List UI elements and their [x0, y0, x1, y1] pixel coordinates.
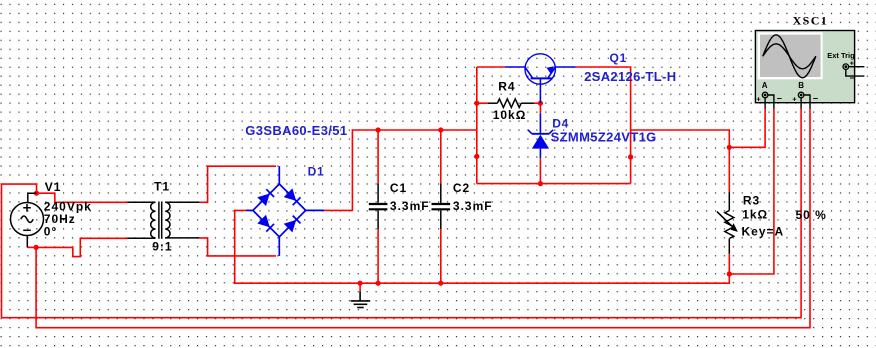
- svg-text:+: +: [792, 94, 797, 103]
- junction R3 bottom node: [727, 271, 732, 276]
- bridge rectifier D1: [246, 166, 324, 256]
- junction ground tap: [358, 281, 363, 286]
- AC source V1: [11, 193, 44, 247]
- svg-text:9:1: 9:1: [152, 240, 172, 254]
- oscilloscope screen frame: [758, 32, 823, 79]
- svg-text:2SA2126-TL-H: 2SA2126-TL-H: [584, 69, 676, 84]
- ground: [351, 292, 371, 308]
- R3 wiper arrow head: [731, 223, 738, 232]
- wire T1 secondary top to bridge top: [199, 166, 276, 202]
- terminal B: [798, 92, 810, 108]
- ext trig terminal: [843, 64, 864, 76]
- wire V1 plus to T1 primary top: [37, 193, 128, 202]
- zener D4 triangle: [532, 135, 549, 149]
- wire D4 bottom to box bottom: [539, 158, 541, 184]
- wire bridge right corner to cap rail: [324, 130, 477, 210]
- wire regulator box bottom: [477, 183, 631, 185]
- junction R4 left: [474, 101, 479, 106]
- junction box left edge: [474, 154, 479, 159]
- junction box right edge: [628, 154, 633, 159]
- svg-text:G3SBA60-E3/51: G3SBA60-E3/51: [245, 123, 347, 138]
- junction C1 bottom: [376, 281, 381, 286]
- transistor base wire: [539, 84, 541, 103]
- svg-text:C2: C2: [453, 181, 470, 195]
- wire T1 secondary bottom to bridge bottom: [199, 238, 276, 256]
- svg-text:Key=A: Key=A: [742, 224, 785, 238]
- wire B+ long run bottom: [2, 109, 802, 318]
- wire V1 minus to T1 primary bottom: [36, 238, 127, 256]
- wire bridge left corner to bottom rail: [235, 210, 730, 283]
- svg-text:D1: D1: [308, 164, 325, 178]
- wire V1 minus stub: [27, 246, 36, 248]
- svg-text:3.3mF: 3.3mF: [453, 199, 493, 213]
- transistor Q1: [505, 54, 576, 85]
- junction C2 top: [438, 127, 443, 132]
- junction C2 bottom: [438, 281, 443, 286]
- wire regulator box top left: [477, 66, 505, 68]
- scope waveform big: [763, 35, 816, 78]
- wire to R3 top: [631, 130, 730, 192]
- svg-text:A: A: [762, 81, 768, 90]
- svg-text:SZMM5Z24VT1G: SZMM5Z24VT1G: [551, 129, 657, 144]
- transistor Q1 arrow: [547, 66, 555, 74]
- wire ground stub: [359, 283, 361, 291]
- wire C2 bottom lead: [440, 229, 442, 283]
- wire C2 top lead: [440, 130, 442, 183]
- junction R3 top node: [727, 145, 732, 150]
- svg-text:50 %: 50 %: [796, 208, 827, 222]
- transformer T1: [128, 202, 200, 239]
- svg-text:R4: R4: [498, 80, 515, 94]
- wire C1 bottom lead: [377, 229, 379, 283]
- svg-text:−: −: [813, 94, 818, 104]
- svg-text:V1: V1: [45, 180, 62, 194]
- capacitor C2: [432, 183, 451, 229]
- scope waveform small: [763, 44, 816, 69]
- zener diode D4: [528, 113, 553, 158]
- wire B- long run bottom: [36, 109, 810, 328]
- wire regulator box top right and right edge: [576, 67, 631, 184]
- wire C1 top lead: [377, 130, 379, 183]
- junction C1 top: [376, 127, 381, 132]
- wire scope A plus: [729, 109, 765, 148]
- svg-text:R3: R3: [743, 193, 760, 207]
- oscilloscope XSC1 body: [755, 31, 854, 103]
- svg-text:B: B: [798, 81, 804, 90]
- oscilloscope screen: [760, 35, 821, 77]
- svg-text:+: +: [756, 94, 761, 103]
- svg-text:Ext Trig: Ext Trig: [827, 51, 855, 60]
- svg-text:0°: 0°: [44, 225, 57, 239]
- junction base node R4 right: [538, 101, 543, 106]
- wire base node to D4: [539, 103, 541, 113]
- svg-text:C1: C1: [390, 181, 407, 195]
- svg-text:Q1: Q1: [610, 51, 628, 65]
- svg-text:10kΩ: 10kΩ: [493, 108, 527, 122]
- svg-text:−: −: [850, 73, 855, 83]
- resistor R4: [488, 99, 534, 108]
- svg-text:XSC1: XSC1: [793, 13, 829, 27]
- junction V1 bottom node: [34, 245, 39, 250]
- capacitor C1: [369, 183, 388, 229]
- potentiometer R3: [717, 192, 736, 254]
- svg-text:−: −: [777, 94, 782, 104]
- wire R4 right: [534, 102, 540, 104]
- wire V1 plus to left rail and dot: [2, 184, 37, 318]
- svg-text:3.3mF: 3.3mF: [390, 199, 430, 213]
- junction D4 bottom: [538, 181, 543, 186]
- svg-text:1kΩ: 1kΩ: [742, 208, 768, 222]
- terminal A: [762, 92, 774, 108]
- wire regulator box left edge: [476, 67, 478, 184]
- svg-text:+: +: [850, 60, 854, 67]
- wire scope A minus: [729, 109, 774, 275]
- junction V1 top node: [34, 191, 39, 196]
- wire R3 bottom red: [728, 254, 730, 274]
- wire R4 left: [477, 102, 488, 104]
- svg-text:T1: T1: [154, 179, 170, 193]
